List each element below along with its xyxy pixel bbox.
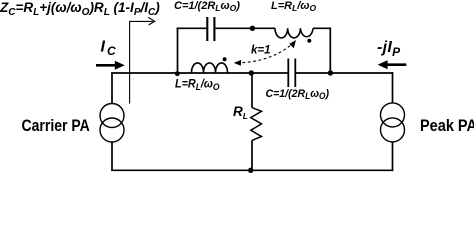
- wire: top branch top edge between capacitor and inductor: [215, 27, 275, 29]
- wire: left vertical from carrier source bottom: [111, 142, 113, 172]
- current source Peak PA (two circles): [381, 103, 405, 142]
- polarity dot of bottom inductor: [223, 57, 227, 61]
- wire: main horizontal bus left segment: [111, 28, 393, 172]
- svg-text:Peak PA: Peak PA: [420, 117, 474, 135]
- svg-text:Carrier PA: Carrier PA: [22, 117, 90, 135]
- wire: left vertical to carrier source top: [111, 72, 113, 104]
- wire: top branch top edge left of capacitor: [177, 27, 207, 29]
- inductor L=RL/wo main line (loops above wire): [192, 63, 228, 73]
- arrow: k=1 coupling dashed curve with two arrowheads: [237, 43, 294, 63]
- wire: right vertical from peak source bottom: [392, 141, 394, 171]
- arrow: current IC (thick, points right): [96, 61, 125, 70]
- arrow: ZC looking-in indicator (thin polyline with open head): [130, 17, 155, 103]
- wire: bottom return bus: [111, 169, 393, 171]
- wire: RL branch top stub: [251, 73, 253, 108]
- node: junction main bus / top-branch right edge: [328, 70, 333, 75]
- inductor L=RL/wo top branch (loops below wire): [275, 28, 313, 38]
- arrow: current -jIP (thick, points left): [378, 60, 407, 69]
- wire: right vertical to peak source top: [392, 72, 394, 103]
- wire: top branch right edge: [329, 28, 331, 74]
- capacitor C=1/(2RLwo) main line : plates: [288, 59, 295, 88]
- resistor RL zigzag: [251, 108, 262, 141]
- svg-text:k=1: k=1: [251, 45, 271, 57]
- node: junction main bus / top-branch left edge: [175, 71, 180, 76]
- wire: top branch top edge right of inductor: [313, 27, 330, 29]
- wire: RL branch bottom stub: [251, 140, 253, 170]
- node: junction dot on top branch between C and L: [250, 26, 255, 31]
- node: junction main bus / RL branch: [249, 70, 254, 75]
- node: junction bottom bus / RL branch: [248, 168, 253, 173]
- polarity dot of top inductor: [307, 39, 311, 43]
- capacitor C=1/(2RLwo) top branch : plates: [207, 17, 214, 41]
- current source Carrier PA (two circles): [100, 104, 124, 143]
- wire: main horizontal bus right segment: [296, 72, 394, 74]
- wire: top branch left edge: [177, 28, 179, 74]
